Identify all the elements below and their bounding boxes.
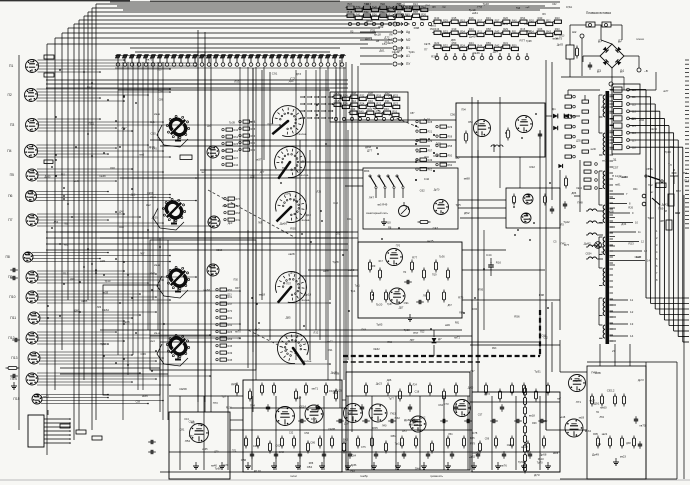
wire bridge connections <box>561 25 639 91</box>
svg-text:кв73: кв73 <box>147 57 153 61</box>
tube socket P6 <box>26 191 37 202</box>
svg-text:C27: C27 <box>267 123 272 126</box>
svg-text:C28: C28 <box>158 91 163 94</box>
tube L7 <box>523 194 533 204</box>
caps left edge <box>6 268 20 389</box>
connector block bottom-left <box>28 410 102 447</box>
svg-text:кв70: кв70 <box>223 463 229 467</box>
svg-text:6: 6 <box>656 264 658 268</box>
resistor RM6 <box>446 268 449 281</box>
label P9 <box>8 275 12 279</box>
svg-text:СЕ86: СЕ86 <box>328 427 336 431</box>
svg-text:R19: R19 <box>452 27 457 31</box>
svg-text:Л29: Л29 <box>97 306 102 309</box>
svg-text:R31: R31 <box>503 41 508 45</box>
svg-text:R49: R49 <box>228 352 233 355</box>
resistor stack center B <box>436 125 453 167</box>
svg-text:R60: R60 <box>397 10 402 14</box>
label S3 <box>150 263 160 275</box>
svg-text:С44: С44 <box>486 253 492 257</box>
tube L4 <box>474 120 491 137</box>
svg-text:кв22: кв22 <box>602 432 608 436</box>
svg-text:R49: R49 <box>356 4 361 8</box>
tube L12 <box>276 407 295 426</box>
svg-text:R67: R67 <box>235 287 240 290</box>
svg-text:Д73: Д73 <box>296 72 301 76</box>
svg-text:Д52: Д52 <box>543 421 548 423</box>
svg-text:R58: R58 <box>486 27 491 31</box>
svg-text:СЕ42: СЕ42 <box>399 3 406 7</box>
svg-text:R64: R64 <box>362 329 367 332</box>
svg-text:ВВ7: ВВ7 <box>676 189 681 193</box>
resistor RM3 <box>410 260 413 273</box>
svg-text:Тр36: Тр36 <box>439 256 445 259</box>
wire top long horizontals <box>110 2 560 52</box>
tube socket P1 <box>26 60 39 73</box>
svg-text:R120: R120 <box>254 469 261 473</box>
label P4 <box>7 149 11 153</box>
svg-text:мк7: мк7 <box>202 171 207 174</box>
label S4 <box>150 331 160 343</box>
svg-text:Д57: Д57 <box>399 306 404 310</box>
svg-text:мк28: мк28 <box>590 401 596 403</box>
tube socket P7 <box>26 214 38 226</box>
label P2 <box>8 93 12 97</box>
svg-text:C56: C56 <box>450 112 456 116</box>
svg-text:9: 9 <box>632 211 634 215</box>
resistor R44 <box>418 220 431 223</box>
label P10 <box>9 295 15 299</box>
terminals near bridge <box>572 30 648 86</box>
svg-text:C58: C58 <box>311 417 317 421</box>
tube L9 <box>386 249 403 266</box>
svg-text:C54: C54 <box>388 95 394 99</box>
label S2 <box>146 195 156 207</box>
svg-text:C63: C63 <box>414 424 419 427</box>
range selector dial B4 <box>275 272 306 303</box>
svg-text:громкость: громкость <box>430 474 444 478</box>
svg-text:мк6: мк6 <box>139 152 144 156</box>
resistor R52 <box>544 194 547 206</box>
svg-text:C33: C33 <box>477 5 483 9</box>
label P13 <box>11 356 17 360</box>
svg-text:R35: R35 <box>431 55 437 59</box>
svg-text:мк25: мк25 <box>427 239 434 243</box>
svg-text:R56: R56 <box>514 315 520 319</box>
transformer Tr1 core <box>606 91 610 344</box>
svg-text:мк76: мк76 <box>501 463 508 467</box>
svg-text:Тр7: Тр7 <box>221 394 226 398</box>
svg-text:C40: C40 <box>636 255 642 259</box>
svg-text:R63: R63 <box>343 437 348 441</box>
capacitor C31 <box>550 206 554 214</box>
svg-text:Л24: Л24 <box>413 384 418 387</box>
svg-text:кв34: кв34 <box>585 429 591 433</box>
resistor row out A <box>590 394 625 407</box>
svg-text:Др71: Др71 <box>365 36 373 40</box>
svg-text:R24: R24 <box>360 101 365 105</box>
svg-text:R79: R79 <box>470 442 475 446</box>
svg-text:Д67: Д67 <box>448 305 453 307</box>
svg-text:R50: R50 <box>448 155 453 158</box>
tube L11 <box>190 424 209 443</box>
svg-text:П12: П12 <box>8 336 14 340</box>
tube L8 <box>521 213 531 223</box>
svg-text:П70: П70 <box>396 244 401 247</box>
svg-text:Тр28: Тр28 <box>332 260 339 264</box>
rotary switch wafer S3 <box>166 266 189 292</box>
wire center right extra <box>345 97 560 360</box>
wire winding staircase A <box>630 90 690 342</box>
box multivibrator <box>358 242 462 318</box>
svg-text:R77: R77 <box>412 256 418 260</box>
bracket of S2 <box>153 208 184 230</box>
svg-text:R31: R31 <box>385 99 390 103</box>
svg-text:31: 31 <box>613 158 617 162</box>
svg-text:П51: П51 <box>682 171 688 175</box>
svg-text:C91: C91 <box>404 301 410 305</box>
svg-text:R88: R88 <box>309 462 314 465</box>
gnd pin cu <box>381 218 387 225</box>
svg-text:кв81: кв81 <box>615 183 621 186</box>
svg-text:П5: П5 <box>10 173 14 177</box>
svg-text:R17: R17 <box>379 261 384 263</box>
svg-text:C84: C84 <box>472 307 477 311</box>
resistor RM1 <box>368 260 371 273</box>
svg-text:R23: R23 <box>393 101 398 105</box>
resistor socket series <box>44 55 192 164</box>
transformer tap ticks <box>610 95 614 341</box>
resistor chain row G <box>332 99 399 108</box>
svg-text:кв17: кв17 <box>296 396 302 400</box>
tube socket P9 <box>26 271 38 283</box>
svg-text:Др23: Др23 <box>376 381 383 385</box>
svg-text:Д13: Д13 <box>227 294 232 297</box>
resistor row out B <box>596 436 635 449</box>
svg-text:R24: R24 <box>413 2 418 6</box>
node stack dots <box>415 125 435 181</box>
svg-text:СЕ34: СЕ34 <box>576 188 582 190</box>
svg-text:R33: R33 <box>555 27 560 31</box>
transformer lower taps <box>610 298 634 353</box>
svg-text:СЕ54: СЕ54 <box>586 253 593 256</box>
svg-text:R28: R28 <box>428 121 433 124</box>
wire secondary taps B <box>610 192 651 265</box>
lamp L1 <box>595 242 602 249</box>
svg-text:П63: П63 <box>390 411 396 415</box>
svg-text:Тр1: Тр1 <box>351 289 356 293</box>
svg-text:СЕ54: СЕ54 <box>284 193 291 196</box>
svg-text:R44: R44 <box>234 164 239 167</box>
wire strip rails <box>115 56 346 69</box>
svg-text:Х волна: Х волна <box>299 218 310 222</box>
svg-text:Др99: Др99 <box>45 176 52 179</box>
svg-text:мк59: мк59 <box>502 22 508 26</box>
svg-text:Др79: Др79 <box>149 146 155 149</box>
svg-text:мк18: мк18 <box>374 33 381 37</box>
svg-text:R15: R15 <box>334 99 339 103</box>
svg-text:Д1: Д1 <box>598 39 602 43</box>
wire left long horizontals <box>46 80 348 250</box>
svg-text:R40: R40 <box>350 107 355 111</box>
svg-text:7: 7 <box>626 192 628 196</box>
svg-text:СЕ70: СЕ70 <box>650 127 658 131</box>
svg-text:C81: C81 <box>179 428 185 432</box>
svg-text:Д42: Д42 <box>119 210 124 214</box>
tube socket P15 <box>32 394 42 404</box>
svg-text:Кн3: Кн3 <box>150 271 155 275</box>
svg-text:Д36: Д36 <box>631 117 636 120</box>
resistor chain row F <box>332 91 399 100</box>
tube L5 <box>516 116 533 133</box>
box det unit <box>506 188 560 228</box>
resistor R51 <box>513 194 516 206</box>
tube socket P11 <box>28 312 40 324</box>
svg-text:R93: R93 <box>532 422 537 425</box>
svg-text:3: 3 <box>656 243 658 247</box>
svg-text:R33: R33 <box>393 93 398 97</box>
svg-text:П57: П57 <box>286 281 291 285</box>
svg-text:Л30: Л30 <box>157 70 162 72</box>
svg-text:Кн4: Кн4 <box>150 339 155 343</box>
svg-text:мк30: мк30 <box>591 149 597 151</box>
capacitor row bottom <box>250 451 532 459</box>
svg-text:R110: R110 <box>538 457 544 461</box>
svg-text:П4: П4 <box>596 412 600 414</box>
svg-text:П4: П4 <box>7 149 11 153</box>
svg-text:кв65: кв65 <box>82 299 88 303</box>
svg-text:кв75: кв75 <box>556 37 563 41</box>
svg-text:R32: R32 <box>236 219 241 222</box>
svg-text:мк58: мк58 <box>607 209 614 213</box>
terminal row under chain C <box>435 53 529 60</box>
svg-text:R32: R32 <box>364 10 369 14</box>
svg-text:мк10: мк10 <box>466 48 472 51</box>
tube socket P4 <box>25 145 38 158</box>
svg-text:13: 13 <box>644 249 647 253</box>
svg-text:тембр: тембр <box>360 474 368 478</box>
svg-text:СЕ68: СЕ68 <box>99 174 106 178</box>
svg-text:R29: R29 <box>443 18 448 22</box>
svg-text:C98: C98 <box>416 138 421 142</box>
svg-text:R60: R60 <box>228 317 233 320</box>
svg-text:Тр60: Тр60 <box>100 342 106 346</box>
svg-text:Др66: Др66 <box>280 222 288 226</box>
svg-text:П19: П19 <box>432 273 437 276</box>
svg-text:R77: R77 <box>520 38 526 42</box>
svg-text:П3: П3 <box>10 123 14 127</box>
svg-text:Л40: Л40 <box>347 411 353 415</box>
svg-text:Тр75: Тр75 <box>456 204 462 207</box>
svg-text:Тр98: Тр98 <box>526 40 532 43</box>
svg-text:R88: R88 <box>409 7 414 9</box>
svg-text:R42: R42 <box>234 129 239 132</box>
svg-text:C36: C36 <box>141 352 147 356</box>
svg-text:C65: C65 <box>433 154 439 158</box>
svg-text:R50: R50 <box>228 289 233 292</box>
svg-text:Д95: Д95 <box>286 316 291 320</box>
box output <box>587 366 646 479</box>
svg-text:Тр58: Тр58 <box>518 460 525 464</box>
svg-text:кв71: кв71 <box>454 336 460 340</box>
svg-text:Л64: Л64 <box>222 204 227 208</box>
phone jack <box>642 189 681 215</box>
box bottom stage 1 <box>169 412 230 479</box>
svg-text:П66: П66 <box>670 145 675 149</box>
svg-text:R54: R54 <box>343 93 348 97</box>
svg-text:мк42: мк42 <box>521 445 528 449</box>
svg-text:R34: R34 <box>424 157 429 159</box>
svg-text:R62: R62 <box>448 164 453 167</box>
svg-text:Тр18: Тр18 <box>647 216 654 220</box>
resistor stack tall mid <box>216 288 233 362</box>
svg-text:R48: R48 <box>119 226 124 229</box>
svg-text:R42: R42 <box>675 211 681 215</box>
svg-text:C108: C108 <box>329 389 336 393</box>
svg-text:C84: C84 <box>351 454 356 457</box>
label B4 <box>299 298 310 302</box>
svg-text:R44: R44 <box>469 41 474 45</box>
svg-text:R38: R38 <box>334 372 340 376</box>
svg-text:C48: C48 <box>279 450 285 454</box>
resistor RN2 <box>384 290 387 303</box>
svg-text:Д65: Д65 <box>435 141 441 145</box>
wire center mesh <box>60 30 560 440</box>
svg-text:C62: C62 <box>275 444 281 448</box>
svg-text:R20: R20 <box>434 41 439 45</box>
wire top-left nested bus corners <box>47 4 560 455</box>
svg-text:П8: П8 <box>6 255 10 259</box>
svg-text:R53: R53 <box>468 121 473 124</box>
svg-text:R84: R84 <box>364 169 370 173</box>
svg-text:Дп: Дп <box>552 107 556 111</box>
svg-text:Д61: Д61 <box>379 48 385 52</box>
svg-text:R57: R57 <box>428 150 433 153</box>
svg-text:СЕ62: СЕ62 <box>373 347 380 351</box>
svg-text:кв65: кв65 <box>202 448 208 451</box>
svg-text:Д3: Д3 <box>597 69 601 73</box>
svg-text:П17: П17 <box>63 271 69 275</box>
svg-text:C57: C57 <box>478 413 483 416</box>
svg-text:R23: R23 <box>555 16 560 20</box>
svg-text:R50: R50 <box>387 341 392 344</box>
wire left edge vertical <box>19 55 428 430</box>
label P11 <box>10 316 16 320</box>
svg-text:R51: R51 <box>512 29 517 33</box>
svg-text:Тр11: Тр11 <box>355 286 361 288</box>
svg-text:мк50: мк50 <box>348 268 355 272</box>
svg-text:R40: R40 <box>368 99 373 103</box>
svg-text:П47: П47 <box>591 371 597 375</box>
wire bridge right drop <box>610 72 656 90</box>
capacitor coupling row <box>298 419 546 423</box>
svg-text:кв37: кв37 <box>256 158 262 162</box>
svg-text:СЕ58: СЕ58 <box>179 387 187 391</box>
svg-text:Др74: Др74 <box>290 272 296 274</box>
svg-text:Кн2: Кн2 <box>146 203 151 207</box>
svg-text:R58: R58 <box>372 4 377 8</box>
svg-text:Х волна: Х волна <box>296 132 307 136</box>
svg-text:СЕ16: СЕ16 <box>216 249 223 252</box>
svg-text:Др70: Др70 <box>434 189 440 192</box>
svg-text:Ш2: Ш2 <box>572 30 577 34</box>
svg-text:Д86: Д86 <box>572 191 577 195</box>
svg-text:C87: C87 <box>410 112 415 115</box>
svg-text:R56: R56 <box>372 12 377 16</box>
resistor row bottom upper <box>235 383 549 402</box>
svg-text:кв35: кв35 <box>142 394 148 398</box>
svg-text:C62: C62 <box>438 403 443 407</box>
svg-text:R44: R44 <box>477 43 482 47</box>
svg-text:R41: R41 <box>228 324 233 327</box>
svg-text:Др2: Др2 <box>207 125 212 128</box>
svg-text:Др98: Др98 <box>366 19 373 23</box>
svg-text:кв77: кв77 <box>663 90 669 93</box>
resistor RM4 <box>422 268 425 281</box>
resistor stack right of B2 <box>239 120 256 152</box>
svg-text:R61: R61 <box>428 169 433 172</box>
box around chain F-H <box>330 92 408 122</box>
svg-text:Ад: Ад <box>406 30 410 34</box>
rotary switch wafer S4 <box>166 334 189 360</box>
svg-text:П14: П14 <box>250 404 256 408</box>
svg-text:П9: П9 <box>8 275 12 279</box>
svg-text:П7: П7 <box>424 48 428 52</box>
svg-text:R106: R106 <box>335 389 342 393</box>
tube L14 <box>344 404 363 423</box>
svg-text:R43: R43 <box>347 10 352 14</box>
svg-text:Тр31: Тр31 <box>408 50 415 54</box>
svg-text:R98: R98 <box>539 293 545 297</box>
svg-text:Д26: Д26 <box>387 378 392 382</box>
coil KV <box>491 144 503 152</box>
capacitor C40 <box>404 280 412 284</box>
winding bumps lower <box>586 209 603 259</box>
label P7 <box>8 218 12 222</box>
svg-text:C55: C55 <box>150 131 156 135</box>
svg-text:Л18: Л18 <box>110 166 115 170</box>
svg-text:Др7: Др7 <box>255 327 260 331</box>
svg-text:П6: П6 <box>8 194 12 198</box>
svg-text:Плавкая вставка: Плавкая вставка <box>586 11 611 15</box>
svg-text:~В: ~В <box>644 69 648 73</box>
svg-text:R40: R40 <box>434 16 439 20</box>
svg-text:Л63: Л63 <box>600 416 605 419</box>
wire socket fanout <box>32 59 331 404</box>
label central <box>366 211 388 215</box>
svg-text:R26: R26 <box>421 12 426 16</box>
svg-text:П4: П4 <box>238 339 242 341</box>
svg-text:C47: C47 <box>433 226 439 230</box>
capacitor C50 <box>148 440 156 454</box>
wire out links <box>546 340 642 465</box>
svg-text:R93: R93 <box>492 348 497 350</box>
svg-text:Тл: Тл <box>668 163 672 167</box>
svg-text:Тр12: Тр12 <box>395 442 402 446</box>
svg-text:мк63: мк63 <box>430 25 436 28</box>
svg-text:мк18: мк18 <box>560 416 566 419</box>
svg-text:П48: П48 <box>577 201 583 205</box>
svg-text:мк41: мк41 <box>249 120 256 124</box>
svg-text:C62: C62 <box>420 188 426 192</box>
svg-text:Др3: Др3 <box>228 221 233 225</box>
diode pair D5 D6 <box>546 107 580 118</box>
svg-text:Д73: Д73 <box>534 473 540 477</box>
svg-text:Др68: Др68 <box>540 452 547 456</box>
fuse Pr1 <box>566 5 622 40</box>
svg-text:R43: R43 <box>434 27 439 31</box>
svg-text:П69: П69 <box>658 207 664 211</box>
